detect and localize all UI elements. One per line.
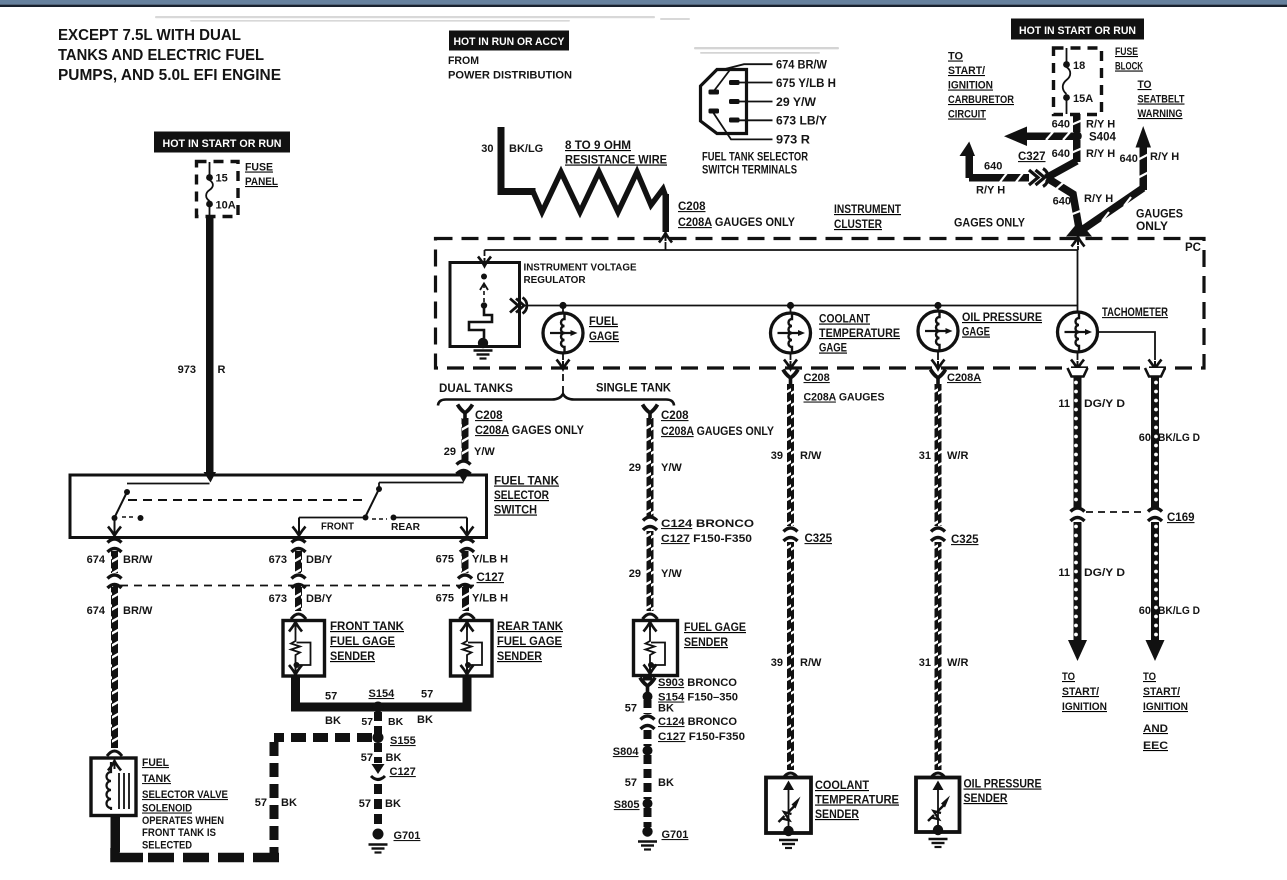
fuse element 15 10A: [206, 162, 236, 217]
fuel gage: [543, 313, 583, 353]
svg-text:57: 57: [625, 777, 637, 789]
svg-text:DB/Y: DB/Y: [306, 593, 333, 605]
arrowheads to START/IGNITION: [1068, 640, 1087, 661]
arrow left from S404: [1004, 127, 1076, 147]
svg-text:GAGES ONLY: GAGES ONLY: [954, 218, 1025, 230]
svg-text:BLOCK: BLOCK: [1115, 61, 1143, 73]
svg-text:BK: BK: [658, 777, 674, 789]
connector C127 (bottom): [372, 764, 385, 774]
label TO START/IGNITION CARBURETOR CIRCUIT: [948, 51, 1014, 121]
svg-text:31: 31: [919, 450, 931, 462]
svg-text:BR/W: BR/W: [123, 605, 153, 617]
svg-text:R/Y H: R/Y H: [976, 185, 1005, 197]
label INSTRUMENT VOLTAGE REGULATOR: [524, 262, 637, 287]
pins: [709, 80, 740, 123]
connector C127 row on 673: [292, 575, 306, 588]
thick wires from senders to S154: [296, 677, 468, 707]
svg-text:R/W: R/W: [800, 657, 822, 669]
label 640 R/Y H (below fuse): [1052, 119, 1116, 131]
svg-text:C169: C169: [1167, 512, 1195, 524]
svg-text:R/Y H: R/Y H: [1150, 151, 1179, 163]
cup connector below cluster (60 wire): [1145, 368, 1165, 377]
svg-text:R/Y H: R/Y H: [1086, 119, 1115, 131]
svg-text:TANK: TANK: [142, 773, 171, 785]
label FROM POWER DISTRIBUTION: [448, 55, 572, 82]
svg-text:674 BR/W: 674 BR/W: [776, 58, 828, 72]
svg-text:TANKS AND ELECTRIC FUEL: TANKS AND ELECTRIC FUEL: [58, 47, 264, 64]
svg-text:675: 675: [436, 593, 454, 605]
connector C327: [1029, 169, 1048, 187]
header HOT IN RUN OR ACCY: [449, 31, 569, 51]
svg-text:FRONT TANK IS: FRONT TANK IS: [142, 827, 216, 839]
labels FRONT REAR: [321, 522, 421, 534]
svg-text:BK/LG D: BK/LG D: [1158, 432, 1200, 444]
svg-text:C127 F150-F350: C127 F150-F350: [661, 533, 752, 545]
svg-text:POWER DISTRIBUTION: POWER DISTRIBUTION: [448, 70, 572, 82]
label 973 R: [178, 364, 226, 376]
svg-text:R/Y H: R/Y H: [1084, 193, 1113, 205]
svg-text:BK: BK: [386, 752, 402, 764]
svg-text:W/R: W/R: [947, 657, 968, 669]
svg-text:BK/LG: BK/LG: [509, 143, 543, 155]
dashed C127 line: [120, 585, 474, 587]
svg-text:GAGE: GAGE: [962, 327, 990, 339]
connector after regulator: [510, 298, 527, 314]
svg-text:SOLENOID: SOLENOID: [142, 803, 192, 815]
svg-text:SEATBELT: SEATBELT: [1138, 94, 1185, 106]
svg-text:C208: C208: [804, 372, 830, 384]
fuse panel F15 dashed box: [197, 162, 239, 217]
ground G701 (single): [642, 826, 652, 836]
wire 30 BK/LG: [498, 127, 536, 195]
svg-text:COOLANT: COOLANT: [819, 314, 870, 326]
wire below S404: [1073, 140, 1081, 162]
switch internals right: [293, 483, 474, 536]
label FUEL TANK SELECTOR SWITCH: [494, 476, 560, 517]
label 640 / R/Y H (left branch): [976, 161, 1005, 197]
connector below switch 675: [460, 539, 474, 552]
svg-text:TEMPERATURE: TEMPERATURE: [815, 795, 899, 807]
svg-text:SWITCH: SWITCH: [494, 505, 537, 517]
svg-text:CIRCUIT: CIRCUIT: [948, 109, 986, 121]
right branch: arrow up TO SEATBELT: [1136, 126, 1152, 190]
fuse element 18 15A: [1063, 48, 1093, 114]
svg-text:29: 29: [629, 568, 641, 580]
svg-text:R/Y H: R/Y H: [1086, 148, 1115, 160]
svg-text:C127 F150-F350: C127 F150-F350: [658, 731, 745, 743]
svg-text:640: 640: [1053, 196, 1071, 208]
svg-text:29 Y/W: 29 Y/W: [776, 95, 817, 109]
label 640 R/Y H (center): [1053, 193, 1114, 208]
svg-text:SELECTOR: SELECTOR: [494, 490, 550, 502]
svg-text:INSTRUMENT: INSTRUMENT: [834, 204, 901, 216]
title text: [58, 27, 281, 84]
svg-text:29: 29: [444, 446, 456, 458]
svg-text:BK: BK: [385, 798, 401, 810]
svg-text:START/: START/: [1062, 686, 1099, 698]
svg-text:39: 39: [771, 450, 783, 462]
split brace: [438, 394, 674, 406]
svg-text:C208: C208: [678, 201, 706, 213]
wire 29 Y/W (single, lower): [647, 531, 654, 611]
svg-text:IGNITION: IGNITION: [1062, 701, 1107, 713]
node above fuel gage: [559, 302, 566, 309]
svg-text:W/R: W/R: [947, 450, 968, 462]
svg-text:REAR TANK: REAR TANK: [497, 621, 564, 633]
svg-text:INSTRUMENT VOLTAGE: INSTRUMENT VOLTAGE: [524, 262, 637, 274]
wire 11 DG/Y D (lower): [1074, 522, 1082, 640]
svg-text:REAR: REAR: [391, 522, 421, 533]
svg-text:673: 673: [269, 554, 287, 566]
wire 60 BK/LG D (lower): [1151, 522, 1159, 640]
connector C127 row on 674: [108, 575, 122, 588]
tachometer feed line: [1077, 250, 1079, 312]
svg-text:GAGE: GAGE: [819, 343, 847, 355]
svg-text:57: 57: [421, 689, 433, 701]
connector C124/C127 (lower): [641, 716, 655, 729]
svg-text:BK: BK: [388, 716, 404, 728]
cup connector below cluster (11 wire): [1068, 368, 1088, 377]
label 8 TO 9 OHM RESISTANCE WIRE: [565, 140, 667, 167]
svg-text:PUMPS, AND 5.0L EFI ENGINE: PUMPS, AND 5.0L EFI ENGINE: [58, 67, 281, 84]
top dark line: [0, 5, 1287, 7]
svg-text:FUEL GAGE: FUEL GAGE: [497, 636, 562, 648]
svg-text:EEC: EEC: [1143, 740, 1168, 752]
dashed stub below fuel gage: [562, 374, 564, 396]
arrow into selector switch: [204, 472, 217, 483]
svg-text:R: R: [218, 364, 226, 376]
svg-text:SELECTED: SELECTED: [142, 840, 192, 852]
terminal leader lines: [714, 64, 773, 139]
svg-text:ONLY: ONLY: [1136, 221, 1168, 233]
svg-text:15A: 15A: [1073, 93, 1093, 105]
svg-text:675 Y/LB H: 675 Y/LB H: [776, 76, 836, 90]
svg-text:39: 39: [771, 657, 783, 669]
svg-text:SWITCH TERMINALS: SWITCH TERMINALS: [702, 165, 797, 177]
svg-text:C208A GAUGES ONLY: C208A GAUGES ONLY: [678, 217, 795, 229]
svg-text:G701: G701: [662, 829, 689, 841]
svg-text:BK: BK: [417, 714, 433, 726]
svg-text:18: 18: [1073, 60, 1085, 72]
svg-text:C208A GAGES ONLY: C208A GAGES ONLY: [475, 425, 584, 437]
svg-text:FUEL: FUEL: [142, 757, 169, 769]
connector C325 (coolant): [784, 528, 798, 541]
svg-text:G701: G701: [394, 830, 421, 842]
svg-text:AND: AND: [1143, 723, 1168, 735]
svg-text:GAGE: GAGE: [589, 331, 619, 343]
svg-text:675: 675: [436, 554, 454, 566]
scan noise band above terminals connector: [694, 47, 839, 54]
svg-text:29: 29: [629, 462, 641, 474]
diagonal into C327: [1046, 161, 1077, 178]
svg-text:60: 60: [1139, 605, 1151, 617]
tachometer: [1058, 312, 1098, 352]
svg-text:S903 BRONCO: S903 BRONCO: [658, 677, 737, 689]
wire 29 Y/W (single, upper): [647, 418, 654, 516]
fuse block dashed box: [1054, 48, 1102, 115]
svg-text:C325: C325: [805, 533, 833, 545]
svg-text:Y/LB H: Y/LB H: [472, 593, 508, 605]
svg-text:BK: BK: [658, 703, 674, 715]
resistance wire zigzag: [533, 172, 666, 212]
dashed branch vertical: [270, 742, 279, 853]
svg-text:START/: START/: [1143, 686, 1180, 698]
cluster dashed border: [436, 239, 1205, 369]
svg-text:S804: S804: [613, 746, 640, 758]
label GAUGES ONLY: [1136, 209, 1183, 234]
svg-text:S805: S805: [614, 799, 640, 811]
label FUSE BLOCK: [1115, 46, 1143, 73]
wire 29 Y/W (dual): [462, 418, 469, 461]
svg-text:FROM: FROM: [448, 55, 479, 67]
svg-text:SENDER: SENDER: [815, 809, 860, 821]
svg-text:SENDER: SENDER: [497, 651, 543, 663]
ground G701 (left): [373, 829, 384, 840]
solid stub up into solenoid: [111, 816, 121, 852]
connector C124/C127: [643, 517, 657, 530]
svg-text:WARNING: WARNING: [1138, 108, 1183, 120]
diagonal from seatbelt branch to cluster entry: [1079, 188, 1143, 232]
svg-text:HOT IN RUN OR ACCY: HOT IN RUN OR ACCY: [454, 36, 566, 48]
svg-text:START/: START/: [948, 65, 985, 77]
top feed line inside cluster: [485, 249, 1078, 251]
label C208 / C208A GAUGES ONLY: [678, 201, 795, 229]
svg-text:BK: BK: [325, 715, 341, 727]
svg-text:FUEL GAGE: FUEL GAGE: [330, 636, 395, 648]
svg-text:674: 674: [87, 554, 106, 566]
svg-text:S155: S155: [390, 735, 416, 747]
wire 673 DB/Y lower: [295, 586, 302, 611]
svg-text:C124 BRONCO: C124 BRONCO: [658, 716, 737, 728]
terminal labels: [776, 58, 836, 147]
svg-text:57: 57: [359, 798, 371, 810]
svg-text:673: 673: [269, 593, 287, 605]
svg-text:TACHOMETER: TACHOMETER: [1102, 307, 1169, 319]
fuel gage exit arrow: [562, 353, 564, 360]
splice S805: [643, 799, 653, 809]
coolant temperature sender box: [783, 773, 798, 778]
svg-text:674: 674: [87, 605, 106, 617]
label FUSE PANEL: [245, 162, 278, 189]
label 640 R/Y H (right branch): [1120, 151, 1180, 165]
wire 640 below fuse block: [1073, 114, 1081, 132]
svg-text:C327: C327: [1018, 151, 1046, 163]
svg-text:Y/W: Y/W: [661, 568, 682, 580]
connector above switch entry: [457, 461, 471, 474]
wire 675 Y/LB lower: [462, 586, 469, 611]
arrow into switch (29): [458, 472, 470, 483]
svg-text:PC: PC: [1185, 242, 1201, 254]
svg-text:DG/Y D: DG/Y D: [1084, 398, 1125, 410]
arrow into regulator: [478, 257, 491, 267]
svg-text:C208: C208: [661, 410, 689, 422]
svg-text:PANEL: PANEL: [245, 176, 278, 188]
label TO START/IGNITION AND EEC: [1143, 671, 1188, 752]
label TO SEATBELT WARNING: [1138, 79, 1185, 120]
svg-text:OIL PRESSURE: OIL PRESSURE: [962, 312, 1042, 324]
svg-text:C127: C127: [477, 572, 505, 584]
svg-text:BK: BK: [281, 797, 297, 809]
svg-text:10A: 10A: [216, 200, 236, 212]
wire 60 BK/LG D (upper): [1151, 377, 1159, 508]
svg-text:973: 973: [178, 364, 196, 376]
svg-text:DB/Y: DB/Y: [306, 554, 333, 566]
wire 674 BR/W lower: [111, 586, 118, 748]
svg-text:COOLANT: COOLANT: [815, 780, 869, 792]
svg-text:CARBURETOR: CARBURETOR: [948, 94, 1014, 106]
svg-text:640: 640: [1120, 153, 1138, 165]
label 30 BK/LG: [481, 143, 543, 155]
svg-text:C208A: C208A: [947, 372, 981, 384]
instrument voltage regulator box: [450, 263, 520, 347]
wire 31 W/R (upper): [935, 384, 942, 526]
oil pressure sender box: [931, 773, 946, 778]
oil pressure gage: [918, 311, 958, 351]
chain below single sender: [643, 676, 652, 681]
svg-text:SINGLE TANK: SINGLE TANK: [596, 383, 672, 395]
svg-text:FUSE: FUSE: [1115, 46, 1138, 58]
svg-text:11: 11: [1058, 398, 1070, 410]
svg-text:973 R: 973 R: [776, 133, 810, 147]
connector C325 (oil): [931, 528, 945, 541]
wire 675 Y/LB upper: [462, 551, 469, 573]
svg-text:DUAL TANKS: DUAL TANKS: [439, 383, 513, 395]
svg-text:S154: S154: [369, 688, 396, 700]
wire 673 DB/Y upper: [295, 551, 302, 573]
splice S804: [643, 746, 653, 756]
svg-text:CLUSTER: CLUSTER: [834, 219, 883, 231]
svg-text:TO: TO: [1138, 79, 1152, 91]
tachometer output wire: [1098, 332, 1156, 360]
svg-text:C208A GAUGES: C208A GAUGES: [804, 392, 885, 404]
svg-text:TO: TO: [948, 51, 963, 63]
svg-text:11: 11: [1058, 567, 1070, 579]
svg-text:OPERATES WHEN: OPERATES WHEN: [142, 815, 224, 827]
svg-text:60: 60: [1139, 432, 1151, 444]
regulator internals: [469, 274, 493, 359]
svg-text:C208A GAUGES ONLY: C208A GAUGES ONLY: [661, 426, 774, 438]
label FUEL TANK SELECTOR SWITCH TERMINALS: [702, 152, 809, 177]
svg-text:57: 57: [325, 691, 337, 703]
svg-text:REGULATOR: REGULATOR: [524, 274, 586, 286]
svg-text:BK/LG D: BK/LG D: [1158, 605, 1200, 617]
switch internals left: [108, 484, 210, 536]
svg-text:TEMPERATURE: TEMPERATURE: [819, 328, 900, 340]
connector body: [701, 70, 747, 134]
svg-text:Y/W: Y/W: [474, 446, 495, 458]
svg-text:8 TO 9 OHM: 8 TO 9 OHM: [565, 140, 631, 152]
gauge bus line: [527, 305, 1078, 307]
svg-text:HOT IN START OR RUN: HOT IN START OR RUN: [1019, 25, 1136, 37]
svg-text:FUEL: FUEL: [589, 316, 618, 328]
svg-text:FUEL GAGE: FUEL GAGE: [684, 622, 746, 634]
solid corner at solenoid: [115, 848, 143, 858]
svg-text:Y/LB H: Y/LB H: [472, 554, 508, 566]
svg-text:SENDER: SENDER: [964, 793, 1009, 805]
label 640 R/Y H (below S404): [1052, 148, 1116, 160]
svg-text:640: 640: [1052, 148, 1070, 160]
svg-text:RESISTANCE WIRE: RESISTANCE WIRE: [565, 155, 667, 167]
dashed below S155: [374, 743, 382, 763]
svg-text:FUEL TANK SELECTOR: FUEL TANK SELECTOR: [702, 152, 809, 164]
svg-text:FUEL TANK: FUEL TANK: [494, 476, 560, 488]
svg-text:C124 BRONCO: C124 BRONCO: [661, 518, 755, 530]
wire 39 R/W (upper): [787, 384, 794, 526]
coolant temperature gage: [771, 313, 811, 353]
header HOT IN START OR RUN (left): [154, 132, 290, 153]
splice S404: [1072, 131, 1082, 141]
node above oil pressure gage: [934, 302, 941, 309]
connector C169 pair: [1071, 508, 1085, 521]
top blue bar: [0, 0, 1287, 5]
svg-text:FRONT TANK: FRONT TANK: [330, 621, 405, 633]
svg-text:15: 15: [216, 173, 228, 185]
dashed branch S155 to solenoid (top run): [274, 733, 372, 742]
wire 39 R/W (lower): [787, 542, 794, 770]
svg-text:S404: S404: [1089, 132, 1116, 144]
svg-text:30: 30: [481, 143, 493, 155]
wire left of C327 with up arrow: [960, 142, 1030, 183]
svg-text:TO: TO: [1062, 671, 1075, 683]
svg-text:C208: C208: [475, 410, 503, 422]
connector below switch 673: [292, 539, 306, 552]
svg-text:DG/Y D: DG/Y D: [1084, 567, 1125, 579]
svg-text:EXCEPT 7.5L WITH DUAL: EXCEPT 7.5L WITH DUAL: [58, 27, 241, 44]
svg-text:IGNITION: IGNITION: [1143, 701, 1188, 713]
svg-text:HOT IN START OR RUN: HOT IN START OR RUN: [163, 138, 282, 150]
svg-text:31: 31: [919, 657, 931, 669]
header HOT IN START OR RUN (right): [1011, 19, 1144, 40]
node above coolant gage: [787, 302, 794, 309]
svg-text:GAUGES: GAUGES: [1136, 209, 1183, 221]
svg-text:640: 640: [984, 161, 1002, 173]
svg-text:Y/W: Y/W: [661, 462, 682, 474]
svg-text:SELECTOR VALVE: SELECTOR VALVE: [142, 789, 228, 801]
svg-text:673 LB/Y: 673 LB/Y: [776, 114, 827, 128]
svg-text:IGNITION: IGNITION: [948, 80, 993, 92]
svg-text:SENDER: SENDER: [684, 637, 729, 649]
mechanical link dashed: [128, 499, 368, 501]
wire 11 DG/Y D (upper): [1074, 377, 1082, 508]
dashed to G701: [374, 784, 382, 827]
svg-text:640: 640: [1052, 119, 1070, 131]
svg-text:57: 57: [255, 797, 267, 809]
label INSTRUMENT CLUSTER: [834, 204, 901, 231]
svg-text:57: 57: [625, 703, 637, 715]
dashed branch bottom run: [140, 853, 279, 863]
wire 674 BR/W upper: [111, 551, 118, 573]
svg-text:SENDER: SENDER: [330, 651, 376, 663]
dashed down to S155: [374, 712, 382, 734]
svg-text:FUSE: FUSE: [245, 162, 273, 174]
connector below switch 674: [108, 539, 122, 552]
connector C208 (dual): [458, 405, 473, 420]
svg-text:C325: C325: [951, 534, 979, 546]
svg-text:R/W: R/W: [800, 450, 822, 462]
svg-text:TO: TO: [1143, 671, 1156, 683]
convergence blob + entry arrow into cluster: [1066, 221, 1092, 237]
entry arrow C208 into cluster: [659, 233, 672, 243]
wire down to C208: [663, 194, 670, 232]
svg-text:BR/W: BR/W: [123, 554, 153, 566]
scan noise band above title: [155, 16, 690, 22]
label TO START/IGNITION (left): [1062, 671, 1107, 713]
svg-text:OIL PRESSURE: OIL PRESSURE: [964, 779, 1042, 791]
wire 31 W/R (lower): [935, 542, 942, 770]
svg-text:57: 57: [361, 752, 373, 764]
diagonal from C327 down to cluster entry: [1047, 178, 1080, 228]
svg-text:57: 57: [361, 716, 373, 728]
